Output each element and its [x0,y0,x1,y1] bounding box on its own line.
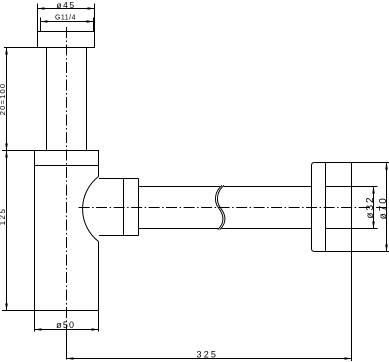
dim 325 line [67,358,352,360]
nut ø45 top [38,32,95,48]
arrow 125 top [5,151,8,158]
arrow ø32 bottom [372,222,375,229]
dim ø32 extension bottom [352,228,378,230]
svg-text:G11/4: G11/4 [55,15,76,22]
arrow 20-100 bottom [5,144,8,151]
svg-text:ø50: ø50 [56,320,75,330]
body flange [35,151,99,166]
wall flange outline [312,163,352,252]
break squiggle left [215,186,222,230]
inlet tube right wall [86,48,88,151]
arrow ø45 left [38,7,45,10]
flange hole bottom [326,228,352,230]
body right wall lower [98,242,100,332]
dim ø45 line [38,8,95,10]
arrow 20-100 top [5,48,8,55]
body right wall upper [98,166,100,177]
centerline horizontal [79,207,389,209]
outlet onion bulge [83,177,99,242]
svg-text:325: 325 [196,349,218,359]
inlet tube left wall [46,48,48,151]
dim 325 right extension / wall edge [351,163,353,362]
flange top extension line [2,150,35,152]
arrow 325 left [67,357,74,360]
flange hole top [326,186,352,188]
outlet nut face [138,179,140,236]
dim ø32 line [373,187,375,229]
dim ø70 extension top [352,162,389,164]
outlet cylinder bottom [99,235,139,237]
dim G1 1/4 extension right [93,18,95,32]
svg-text:20=100: 20=100 [0,83,7,115]
dim ø70 line [386,163,388,252]
dim ø45 extension right [94,4,96,32]
arrow ø50 left [35,328,42,331]
outlet cylinder top [99,178,139,180]
arrow 125 bottom [5,304,8,311]
arrow G right [87,20,94,23]
arrow ø50 right [92,328,99,331]
arrow ø70 bottom [385,245,388,252]
body left wall [34,166,36,332]
dim ø45 extension left [37,4,39,32]
dim ø70 extension bottom [352,251,389,253]
dim G1 1/4 extension left [40,18,42,32]
dim 325 left extension [66,330,68,360]
arrow 325 right [345,357,352,360]
nut bottom extension line [4,47,38,49]
arrow ø70 top [385,163,388,170]
dim ø32 extension top [352,186,378,188]
dim ø50 line [35,329,99,331]
dim G1 1/4 line [41,21,94,23]
outlet nut divider [123,179,125,236]
svg-text:ø45: ø45 [56,0,75,10]
arrow G left [41,20,48,23]
pipe break gap [215,186,224,230]
wall flange divider [325,163,327,252]
svg-text:ø32: ø32 [365,195,376,218]
svg-text:ø70: ø70 [378,196,389,219]
break squiggle right [217,186,224,230]
arrow ø45 right [88,7,95,10]
svg-text:125: 125 [0,208,7,226]
pipe bottom edge [139,228,312,230]
left dimension line 20-100 and 125 [6,48,8,311]
pipe top edge [139,186,312,188]
body bottom [2,310,99,312]
centerline vertical [66,27,68,330]
arrow ø32 top [372,187,375,194]
